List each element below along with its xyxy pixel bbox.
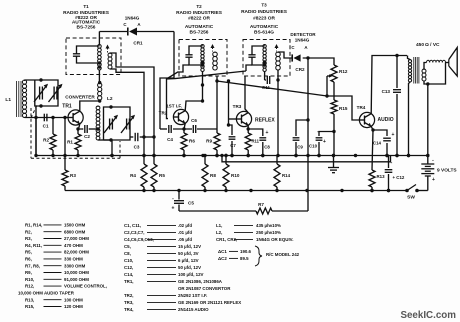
label T2 header (176, 4, 223, 36)
svg-text:10,000 OHM AUDIO TAPER: 10,000 OHM AUDIO TAPER (18, 291, 75, 296)
svg-text:1N64G: 1N64G (125, 16, 140, 21)
capacitor C13 (382, 56, 401, 158)
svg-text:R5: R5 (159, 173, 165, 178)
svg-text:R7: R7 (258, 202, 264, 207)
svg-text:+ C12: + C12 (393, 175, 405, 180)
svg-text:R6,: R6, (25, 257, 32, 262)
diode CR1 (123, 16, 143, 46)
svg-text:R14: R14 (282, 173, 291, 178)
svg-text:470 OHM: 470 OHM (64, 243, 83, 248)
wire TR2 emitter node (182, 123, 185, 130)
output transformer secondary coil (422, 69, 426, 81)
svg-text:L1,: L1, (216, 223, 222, 228)
wire T1 primary bottom to L2 (98, 70, 101, 84)
wire TR4 emitter node (371, 126, 374, 131)
wire CR2 to volume control (303, 56, 334, 65)
wire T3 secondary bottom drop to bus (276, 70, 279, 157)
capacitor C14 electrolytic (373, 130, 395, 157)
transistor TR1 converter (62, 95, 95, 126)
ground symbol (328, 154, 339, 173)
capacitor C1 (40, 114, 49, 129)
T2 secondary coil (213, 52, 218, 70)
svg-text:L2,: L2, (216, 230, 222, 235)
label T3 header (241, 3, 288, 36)
resistor R6 (181, 129, 195, 157)
tuning capacitor frame (oscillator section) (104, 107, 131, 140)
svg-text:R6: R6 (189, 139, 195, 144)
parts list coils and diodes (216, 223, 300, 266)
svg-text:#8223 OR: #8223 OR (253, 16, 275, 22)
svg-text:R3: R3 (70, 173, 76, 178)
svg-text:C5: C5 (188, 201, 194, 206)
parts list capacitors and transistors (124, 223, 241, 312)
svg-text:C6: C6 (191, 118, 197, 123)
resistor R10 (223, 154, 240, 191)
T2 primary coil (201, 45, 204, 72)
IF transformer T2 shield box (179, 40, 227, 77)
svg-text:9 VOLTS: 9 VOLTS (437, 168, 457, 174)
svg-text:R12,: R12, (25, 284, 34, 289)
svg-text:TR4,: TR4, (124, 307, 134, 312)
svg-text:GE 2N169 OR 2N1121 REFLEX: GE 2N169 OR 2N1121 REFLEX (178, 300, 241, 305)
resistor R13 (369, 130, 385, 192)
wire TR3 emitter node (247, 125, 250, 130)
svg-text:L2: L2 (107, 96, 113, 102)
svg-text:REFLEX: REFLEX (255, 118, 275, 124)
capacitor C8 electrolytic (248, 129, 270, 157)
svg-text:CR1: CR1 (133, 41, 143, 46)
tuning capacitor frame (antenna section) (25, 80, 59, 106)
svg-text:R4, R11,: R4, R11, (25, 243, 42, 248)
svg-text:R11: R11 (252, 139, 260, 144)
svg-text:R13: R13 (377, 174, 386, 179)
speaker horn (449, 48, 457, 77)
svg-text:.01 µfd: .01 µfd (178, 230, 192, 235)
wire T1 primary top to CR1 line (98, 32, 100, 45)
svg-text:AUTOMATIC: AUTOMATIC (185, 24, 214, 30)
svg-text:+: + (392, 132, 395, 138)
capacitor C12 electrolytic (385, 156, 405, 193)
capacitor C11 (262, 76, 277, 90)
capacitor C3 (130, 133, 154, 150)
wire CR1 drop to C4 line (160, 32, 174, 130)
wire T2 cap lead out left (167, 65, 190, 79)
wire TR1 collector to L2 (80, 99, 102, 111)
label T1 header (63, 4, 110, 31)
svg-text:SeekIC.com: SeekIC.com (400, 310, 456, 321)
oscillator coil L2 upper winding (98, 83, 113, 102)
IF transformer T1 shield box (66, 38, 121, 75)
svg-text:R2,: R2, (25, 229, 32, 234)
svg-text:+: + (172, 206, 175, 212)
svg-text:R10,: R10, (25, 277, 34, 282)
svg-text:250 µh±10%: 250 µh±10% (256, 230, 281, 235)
wire L2 bottom (98, 140, 114, 157)
svg-text:1N64G OR EQUIV.: 1N64G OR EQUIV. (256, 237, 293, 242)
svg-text:TR4: TR4 (357, 105, 366, 110)
capacitor C6 (191, 118, 197, 133)
svg-text:15 µfd, 12V: 15 µfd, 12V (178, 244, 201, 249)
svg-text:R10: R10 (231, 173, 240, 178)
transistor TR2 1st IF (159, 104, 189, 125)
svg-text:T2: T2 (196, 4, 202, 9)
svg-text:SW: SW (407, 195, 415, 201)
svg-text:TR3: TR3 (233, 104, 242, 109)
diode CR2 detector (290, 32, 316, 72)
T2 tuning arrow (211, 44, 215, 52)
output transformer 450 ohm (407, 42, 440, 157)
svg-text:R1: R1 (67, 140, 73, 145)
transistor TR4 audio (357, 105, 394, 128)
variable capacitor C-osc (104, 105, 118, 141)
svg-text:R13,: R13, (25, 297, 34, 302)
svg-text:ΔC1: ΔC1 (218, 249, 227, 254)
T3 primary coil (263, 45, 266, 72)
variable capacitor trimmer 2 (121, 115, 135, 133)
svg-text:R12: R12 (339, 69, 348, 74)
svg-text:BS-7256: BS-7256 (190, 30, 209, 36)
resistor R5 (151, 156, 165, 191)
wire bus A left riser (35, 118, 37, 156)
transistor TR3 reflex (233, 104, 276, 127)
wire T1 secondary leads (110, 53, 121, 72)
wire detector output drop (307, 58, 309, 156)
svg-text:RADIO INDUSTRIES: RADIO INDUSTRIES (241, 9, 288, 15)
resistor R8 (202, 154, 216, 191)
speaker voice coil (424, 60, 449, 69)
resistor R4 (130, 156, 147, 191)
wire common bus A (34, 154, 429, 157)
svg-text:27,000 OHM: 27,000 OHM (64, 236, 89, 241)
svg-text:TR3,: TR3, (124, 300, 134, 305)
wire L1 to TR1 base (25, 116, 69, 119)
svg-text:450: 450 (416, 42, 424, 48)
svg-text:C8: C8 (264, 145, 270, 150)
wire T2 primary bottom lead (201, 72, 204, 102)
svg-text:TR1,: TR1, (124, 279, 134, 284)
svg-text:6 µfd, 12V: 6 µfd, 12V (178, 258, 199, 263)
svg-text:91,000 OHM: 91,000 OHM (64, 277, 89, 282)
svg-text:R15,: R15, (25, 304, 34, 309)
wire T3 feedback diagonal to TR2 base (167, 71, 247, 119)
wire T3 cap lead out left (246, 65, 252, 71)
svg-text:C1: C1 (43, 124, 49, 129)
svg-text:R9,: R9, (25, 270, 32, 275)
T3 secondary coil (276, 52, 281, 70)
wire top bus to diode CR1 (99, 31, 174, 33)
wire T2 secondary diagonal AGC to TR4 base (215, 79, 359, 120)
svg-text:1ST I.F.: 1ST I.F. (166, 104, 182, 109)
svg-text:Ω / VC: Ω / VC (425, 42, 440, 48)
svg-text:R9: R9 (206, 139, 212, 144)
wire TR4 collector riser (371, 54, 407, 114)
svg-text:2N1415 AUDIO: 2N1415 AUDIO (178, 307, 209, 312)
svg-text:C12,: C12, (124, 265, 133, 270)
oscillator coil L2 lower winding (96, 101, 100, 140)
wire ground return (220, 154, 390, 162)
capacitor C5 electrolytic (172, 191, 195, 212)
wire TR2 emitter line (160, 128, 217, 130)
capacitor C9 (293, 118, 310, 157)
T1 secondary coil (108, 53, 112, 69)
svg-text:10,000 OHM: 10,000 OHM (64, 270, 89, 275)
capacitor C7 (229, 125, 237, 157)
svg-text:C7: C7 (230, 143, 236, 148)
svg-text:C11: C11 (262, 85, 271, 90)
svg-text:BS-7256: BS-7256 (77, 25, 96, 31)
svg-text:82,000 OHM: 82,000 OHM (64, 250, 89, 255)
svg-text:120 OHM: 120 OHM (64, 304, 83, 309)
wire TR2 collector (185, 99, 204, 110)
svg-text:T1: T1 (83, 4, 89, 9)
antenna coil L1 (5, 80, 26, 117)
svg-text:C3: C3 (134, 145, 140, 150)
svg-text:R15: R15 (339, 106, 348, 111)
svg-text:C2,C3,C7,: C2,C3,C7, (124, 230, 145, 235)
wire T1 secondary bottom drop (121, 72, 146, 157)
svg-text:ΔC2: ΔC2 (218, 256, 227, 261)
wire T1 secondary top drop (121, 67, 156, 157)
resistor R1 (67, 129, 81, 156)
svg-text:R5,: R5, (25, 250, 32, 255)
svg-text:TR1: TR1 (62, 104, 72, 110)
capacitor C4 (167, 125, 173, 142)
svg-text:OR 2N1087 CONVERTOR: OR 2N1087 CONVERTOR (178, 286, 231, 291)
resistor R14 (274, 156, 291, 191)
T1 tank capacitor (73, 46, 101, 65)
resistor R3 (62, 118, 76, 191)
speaker voice coil return loop (424, 63, 446, 86)
svg-text:R4: R4 (130, 173, 136, 178)
svg-text:AUTOMATIC: AUTOMATIC (250, 24, 279, 30)
battery 9 volts (421, 156, 457, 191)
svg-text:1N64G: 1N64G (295, 38, 310, 43)
svg-text:100 µfd, 12V: 100 µfd, 12V (178, 272, 204, 277)
svg-text:50 µfd, 12V: 50 µfd, 12V (178, 265, 201, 270)
svg-text:6800 OHM: 6800 OHM (64, 229, 86, 234)
svg-text:C4: C4 (167, 137, 173, 142)
svg-text:RADIO INDUSTRIES: RADIO INDUSTRIES (176, 10, 223, 16)
svg-text:2N292 1ST I.F.: 2N292 1ST I.F. (178, 293, 207, 298)
svg-text:50 µfd, 3V: 50 µfd, 3V (178, 251, 199, 256)
T2 tank capacitor (185, 46, 204, 67)
svg-text:C2: C2 (84, 134, 90, 139)
svg-text:435 µh±10%: 435 µh±10% (256, 223, 281, 228)
parts list resistors (18, 223, 107, 310)
svg-text:100 OHM: 100 OHM (64, 297, 83, 302)
wire TR3 base drop (227, 79, 237, 126)
T1 primary coil (98, 45, 102, 71)
svg-text:330 OHM: 330 OHM (64, 257, 83, 262)
potentiometer R12 volume control (331, 65, 348, 82)
resistor R15 (331, 82, 348, 156)
capacitor C2 (82, 125, 98, 139)
svg-text:C1, C11,: C1, C11, (124, 223, 141, 228)
svg-text:C10,: C10, (124, 258, 133, 263)
wire TR1 emitter node (76, 124, 82, 131)
resistor R9 (206, 76, 220, 158)
resistor R11 (245, 129, 259, 157)
R12 wiper arrow (327, 74, 333, 96)
wire T3 primary bottom and C11 (265, 72, 266, 81)
svg-text:CR2: CR2 (295, 67, 305, 72)
svg-text:3300 OHM: 3300 OHM (64, 263, 86, 268)
svg-text:C5,: C5, (124, 244, 131, 249)
T1 tuning arrow (106, 45, 110, 53)
svg-text:TR2: TR2 (159, 111, 168, 116)
variable capacitor C-ant (34, 78, 48, 107)
wire speaker return to battery line (426, 84, 429, 157)
svg-text:1500 OHM: 1500 OHM (64, 223, 86, 228)
svg-text:R/C MODEL 242: R/C MODEL 242 (266, 252, 300, 257)
svg-text:190.6: 190.6 (240, 249, 252, 254)
svg-text:89.5: 89.5 (240, 256, 249, 261)
svg-text:GE 2N1086, 2N1086A: GE 2N1086, 2N1086A (178, 279, 223, 284)
svg-text:.05 µfd: .05 µfd (178, 237, 192, 242)
svg-text:C9: C9 (297, 145, 303, 150)
svg-text:+: + (266, 130, 269, 136)
mechanical gang dashed linkage (31, 105, 120, 158)
svg-text:C14,: C14, (124, 272, 133, 277)
capacitor C10 electrolytic (309, 129, 336, 157)
svg-text:R7, R8,: R7, R8, (25, 263, 40, 268)
wire bus C with resistor R7 (179, 156, 308, 215)
svg-text:.02 µfd: .02 µfd (178, 223, 192, 228)
svg-text:+: + (323, 139, 326, 145)
svg-text:R1, R14,: R1, R14, (25, 223, 42, 228)
svg-text:AUDIO: AUDIO (378, 117, 394, 123)
T3 tuning arrow (275, 44, 279, 52)
svg-text:CONVERTER: CONVERTER (65, 95, 95, 100)
variable capacitor trimmer (49, 84, 63, 102)
svg-text:C10: C10 (309, 144, 318, 149)
svg-text:C8,: C8, (124, 251, 131, 256)
wire TR3 collector riser (245, 76, 248, 113)
svg-text:VOLUME CONTROL,: VOLUME CONTROL, (64, 284, 107, 289)
wire supply bus B (65, 189, 407, 192)
svg-text:T3: T3 (261, 3, 267, 8)
svg-text:C13: C13 (382, 89, 391, 94)
wire gang1 to base line (34, 106, 37, 156)
svg-text:#8222 OR: #8222 OR (188, 16, 210, 22)
svg-text:L1: L1 (5, 97, 11, 103)
T3 tank capacitor (248, 46, 266, 67)
IF transformer T3 shield box (243, 40, 290, 77)
svg-text:R8: R8 (210, 173, 216, 178)
svg-text:BS-614G: BS-614G (254, 30, 274, 36)
svg-text:R3,: R3, (25, 236, 32, 241)
svg-text:+: + (432, 177, 435, 183)
svg-text:TR2,: TR2, (124, 293, 134, 298)
wire T3 secondary top to detector (278, 52, 292, 58)
resistor R2 (43, 118, 56, 156)
svg-text:R2: R2 (43, 138, 49, 143)
svg-text:DETECTOR: DETECTOR (290, 32, 316, 37)
switch SW (405, 185, 428, 201)
svg-text:C14: C14 (373, 141, 382, 146)
